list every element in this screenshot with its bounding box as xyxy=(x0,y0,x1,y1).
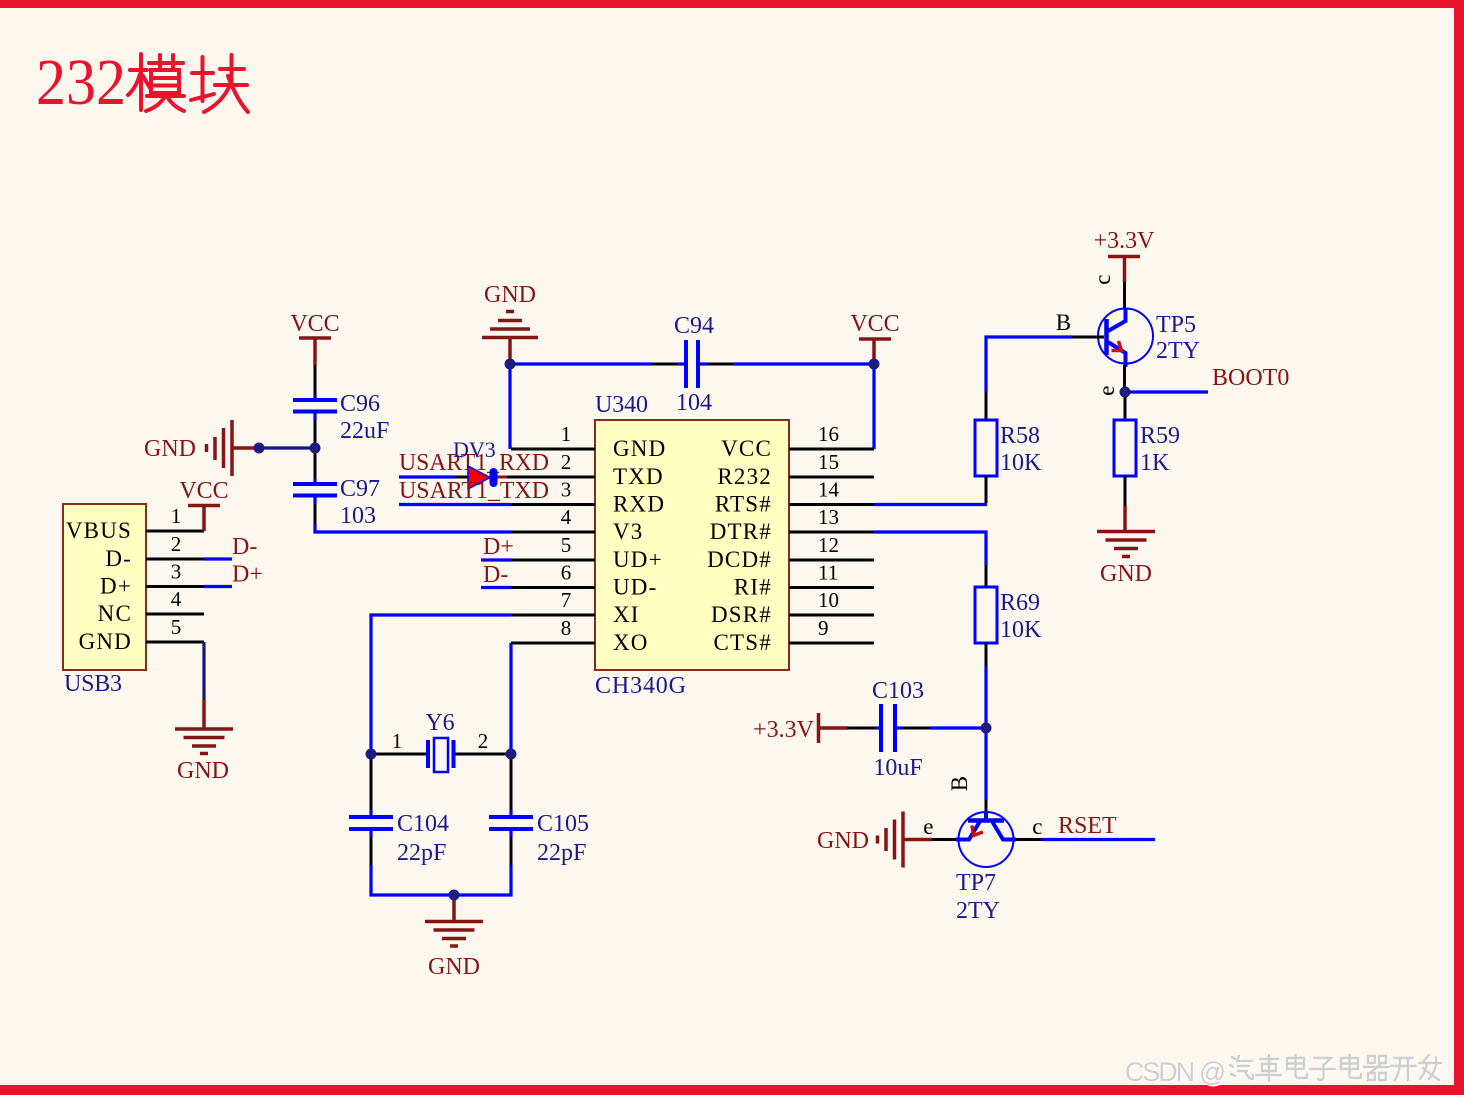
svg-text:+3.3V: +3.3V xyxy=(753,717,815,743)
U340 pin 16 VCC xyxy=(721,422,874,461)
svg-text:16: 16 xyxy=(818,422,839,446)
svg-text:GND: GND xyxy=(817,828,869,854)
power +3.3V above TP5 xyxy=(1094,228,1156,282)
connector USB3 body xyxy=(63,504,146,697)
node crystal ground junction xyxy=(449,890,460,901)
svg-text:Y6: Y6 xyxy=(425,710,454,736)
svg-text:C104: C104 xyxy=(397,811,449,837)
svg-text:1K: 1K xyxy=(1140,450,1170,476)
wire VCC to C96 xyxy=(314,365,317,395)
svg-text:VBUS: VBUS xyxy=(66,518,132,543)
svg-text:232: 232 xyxy=(36,46,126,119)
capacitor C103 xyxy=(872,678,924,781)
svg-text:D+: D+ xyxy=(483,534,514,560)
svg-text:R58: R58 xyxy=(1000,423,1040,449)
U340 pin 11 RI# xyxy=(734,561,874,600)
svg-text:C103: C103 xyxy=(872,678,924,704)
U340 pin 5 UD+ xyxy=(511,533,663,572)
svg-text:BOOT0: BOOT0 xyxy=(1212,365,1289,391)
resistor R59 xyxy=(1114,420,1180,476)
svg-text:13: 13 xyxy=(818,505,839,529)
svg-text:DV3: DV3 xyxy=(453,437,496,462)
svg-text:15: 15 xyxy=(818,450,839,474)
svg-text:GND: GND xyxy=(144,436,196,462)
svg-text:3: 3 xyxy=(561,478,572,502)
diode DV3 LED xyxy=(453,437,507,489)
svg-text:2TY: 2TY xyxy=(956,898,1000,924)
page border top bar xyxy=(0,0,1464,8)
svg-text:103: 103 xyxy=(340,503,376,529)
wire VCC junction down to chip pin16 xyxy=(872,364,875,449)
svg-text:C96: C96 xyxy=(340,391,380,417)
USB3 pin 3 xyxy=(146,560,204,587)
svg-text:12: 12 xyxy=(818,533,839,557)
svg-text:10K: 10K xyxy=(1000,617,1042,643)
svg-text:e: e xyxy=(923,814,934,839)
svg-text:14: 14 xyxy=(818,478,840,502)
wire bottom rail joining C104 C105 xyxy=(371,865,511,895)
svg-text:TP7: TP7 xyxy=(956,870,996,896)
wire D- stub at USB pin 2 xyxy=(204,557,232,560)
wire TP5 base to R58 xyxy=(985,392,988,420)
wire +3.3V to C103 xyxy=(847,727,875,730)
svg-text:VCC: VCC xyxy=(721,436,772,461)
U340 pin 9 CTS# xyxy=(714,616,874,655)
ground GND above chip xyxy=(482,282,538,364)
svg-text:VCC: VCC xyxy=(179,478,228,504)
svg-text:CH340G: CH340G xyxy=(595,673,686,699)
wire R59 bottom lead xyxy=(1124,476,1127,506)
page border right bar xyxy=(1454,0,1464,1095)
watermark CSDN xyxy=(1125,1057,1228,1089)
capacitor C94 xyxy=(674,313,714,416)
svg-text:VCC: VCC xyxy=(850,311,899,337)
wire chip pin8 XO to crystal right rail xyxy=(509,643,512,754)
node C96/C97 junction xyxy=(310,443,321,454)
svg-text:CSDN @: CSDN @ xyxy=(1125,1057,1226,1087)
svg-text:D+: D+ xyxy=(232,562,263,588)
ground GND below crystal xyxy=(425,895,483,980)
U340 pin 4 V3 xyxy=(511,505,644,544)
svg-text:+3.3V: +3.3V xyxy=(1094,228,1156,254)
power VCC right xyxy=(850,311,899,361)
svg-text:3: 3 xyxy=(171,560,182,584)
svg-text:GND: GND xyxy=(484,282,536,308)
page border bottom bar xyxy=(0,1085,1464,1095)
svg-text:2: 2 xyxy=(171,532,182,556)
wire right junction down to C105 xyxy=(510,754,513,810)
svg-text:RTS#: RTS# xyxy=(715,492,772,517)
U340 pin 10 DSR# xyxy=(711,588,874,627)
node crystal left junction xyxy=(366,749,377,760)
svg-text:NC: NC xyxy=(98,601,132,626)
svg-text:1: 1 xyxy=(171,504,182,528)
svg-text:R232: R232 xyxy=(717,464,772,489)
node crystal right junction xyxy=(506,749,517,760)
wire DTR# elbow to R69 xyxy=(985,565,988,587)
wire USB pin5 to ground xyxy=(202,642,205,700)
svg-text:D+: D+ xyxy=(100,574,132,599)
ground GND left of TP7 xyxy=(817,812,932,868)
wire C97 lead down xyxy=(314,504,317,526)
wire LED to chip pin2 xyxy=(507,476,511,479)
svg-text:5: 5 xyxy=(561,533,572,557)
svg-text:R69: R69 xyxy=(1000,590,1040,616)
resistor R58 xyxy=(975,420,1042,476)
svg-text:1: 1 xyxy=(561,422,572,446)
wire TP7 collector xyxy=(1016,838,1041,841)
svg-text:7: 7 xyxy=(561,588,572,612)
svg-text:D-: D- xyxy=(232,534,257,560)
wire D+ stub at USB pin 3 xyxy=(204,585,232,588)
svg-text:4: 4 xyxy=(171,587,182,611)
svg-text:D-: D- xyxy=(483,562,508,588)
power +3.3V left of C103 xyxy=(753,713,847,743)
U340 pin 3 RXD xyxy=(511,478,665,517)
svg-text:TXD: TXD xyxy=(613,464,664,489)
svg-text:10: 10 xyxy=(818,588,839,612)
svg-text:22uF: 22uF xyxy=(340,418,389,444)
svg-text:D-: D- xyxy=(105,546,132,571)
IC U340 CH340G body xyxy=(595,392,789,699)
capacitor C96 xyxy=(293,391,389,444)
U340 pin 8 XO xyxy=(511,616,649,655)
svg-text:9: 9 xyxy=(818,616,829,640)
wire GND junction to C96/C97 junction xyxy=(259,446,315,449)
U340 pin 2 TXD xyxy=(511,450,664,489)
svg-text:VCC: VCC xyxy=(290,311,339,337)
USB3 pin 1 xyxy=(146,504,204,531)
wire R58 bottom lead xyxy=(985,476,988,503)
svg-text:RXD: RXD xyxy=(613,492,665,517)
svg-text:c: c xyxy=(1090,273,1115,284)
svg-text:RI#: RI# xyxy=(734,575,772,600)
transistor TP7 xyxy=(956,811,1016,924)
svg-text:XO: XO xyxy=(613,630,649,655)
svg-text:GND: GND xyxy=(1100,561,1152,587)
svg-text:11: 11 xyxy=(818,561,838,585)
ground GND below R59 xyxy=(1097,506,1155,587)
wire RTS# to R58 xyxy=(874,503,987,506)
svg-text:8: 8 xyxy=(561,616,572,640)
svg-text:10uF: 10uF xyxy=(873,755,922,781)
wire left junction down to C104 xyxy=(370,754,373,810)
wire GND junction down to chip pin1 xyxy=(508,364,511,449)
svg-text:RSET: RSET xyxy=(1058,813,1117,839)
svg-text:B: B xyxy=(1056,310,1073,335)
wire junction down to TP7 base xyxy=(984,728,987,800)
wire C97 to chip pin4 V3 xyxy=(315,524,511,532)
wire TP5 base xyxy=(1072,336,1104,339)
U340 pin 15 R232 xyxy=(717,450,874,489)
U340 pin 6 UD- xyxy=(511,561,657,600)
power VCC at USB pin 1 xyxy=(188,506,220,532)
svg-text:104: 104 xyxy=(676,390,712,416)
capacitor C105 xyxy=(489,811,589,866)
svg-text:UD-: UD- xyxy=(613,575,657,600)
wire R69 bottom lead xyxy=(985,643,988,666)
wire RSET xyxy=(1041,838,1155,841)
U340 pin 1 GND xyxy=(511,422,666,461)
svg-text:C97: C97 xyxy=(340,476,380,502)
wire C96 to junction xyxy=(314,420,317,448)
U340 pin 7 XI xyxy=(511,588,640,627)
svg-text:4: 4 xyxy=(561,505,572,529)
power VCC above C96 xyxy=(290,311,339,365)
wire C105 lead down xyxy=(509,830,512,837)
node C103/R69/TP7 base junction xyxy=(981,723,992,734)
svg-text:2: 2 xyxy=(561,450,572,474)
USB3 pin 5 xyxy=(146,615,204,642)
wire chip pin7 XI to crystal left rail xyxy=(371,615,511,754)
svg-text:B: B xyxy=(947,775,972,792)
wire D+ stub to chip pin5 xyxy=(481,558,511,561)
svg-text:USART1_TXD: USART1_TXD xyxy=(399,478,549,504)
svg-text:DTR#: DTR# xyxy=(710,519,772,544)
svg-text:1: 1 xyxy=(392,729,403,753)
transistor TP5 xyxy=(1098,308,1200,367)
wire D- stub to chip pin6 xyxy=(481,586,511,589)
wire junction to C97 xyxy=(314,448,317,479)
node GND junction above chip xyxy=(505,359,516,370)
svg-text:DCD#: DCD# xyxy=(707,547,772,572)
wire USART1_RXD to LED xyxy=(399,475,455,478)
svg-text:CTS#: CTS# xyxy=(714,630,772,655)
USB3 pin 4 xyxy=(146,587,204,614)
svg-text:C94: C94 xyxy=(674,313,714,339)
wire BOOT0 xyxy=(1130,390,1208,393)
wire C103 to junction xyxy=(895,726,902,729)
wire junction to R59 xyxy=(1124,392,1127,420)
svg-text:GND: GND xyxy=(613,436,666,461)
svg-text:R59: R59 xyxy=(1140,423,1180,449)
wire USART1_TXD to chip pin3 xyxy=(399,503,511,506)
svg-text:5: 5 xyxy=(171,615,182,639)
svg-text:UD+: UD+ xyxy=(613,547,663,572)
ground GND left of C96 xyxy=(144,420,256,476)
svg-text:22pF: 22pF xyxy=(397,840,446,866)
wire TP5 emitter down xyxy=(1123,365,1126,388)
svg-text:USB3: USB3 xyxy=(64,671,122,697)
wire DTR# to R69 xyxy=(874,532,986,565)
svg-text:U340: U340 xyxy=(595,392,648,418)
wire C94 right to VCC junction xyxy=(698,362,707,365)
crystal Y6 xyxy=(371,710,511,772)
title 232模块 xyxy=(36,46,248,119)
ground GND at USB pin 5 xyxy=(175,700,233,754)
wire GND junction to C94 left xyxy=(510,362,652,365)
svg-text:c: c xyxy=(1032,814,1043,839)
svg-text:22pF: 22pF xyxy=(537,840,586,866)
svg-text:C105: C105 xyxy=(537,811,589,837)
svg-text:TP5: TP5 xyxy=(1156,312,1196,338)
node GND-C96 junction xyxy=(254,443,265,454)
USB3 pin 2 xyxy=(146,532,204,559)
svg-text:GND: GND xyxy=(79,629,132,654)
U340 pin 13 DTR# xyxy=(710,505,874,544)
svg-text:e: e xyxy=(1094,384,1119,395)
capacitor C104 xyxy=(349,811,449,866)
svg-text:2: 2 xyxy=(478,729,489,753)
svg-text:GND: GND xyxy=(428,954,480,980)
svg-text:6: 6 xyxy=(561,561,572,585)
watermark chinese glyphs xyxy=(1230,1055,1443,1083)
resistor R69 xyxy=(975,587,1042,643)
svg-text:XI: XI xyxy=(613,602,640,627)
U340 pin 12 DCD# xyxy=(707,533,874,572)
svg-text:DSR#: DSR# xyxy=(711,602,772,627)
wire +3.3V to TP5 collector xyxy=(1123,282,1126,309)
U340 pin 14 RTS# xyxy=(715,478,874,517)
wire C104 lead down xyxy=(369,830,372,837)
svg-text:10K: 10K xyxy=(1000,450,1042,476)
svg-text:2TY: 2TY xyxy=(1156,338,1200,364)
capacitor C97 xyxy=(293,476,380,529)
svg-text:V3: V3 xyxy=(613,519,644,544)
wire TP7 emitter xyxy=(932,838,956,841)
node TP5 emitter junction xyxy=(1120,387,1131,398)
node VCC junction xyxy=(869,359,880,370)
svg-text:GND: GND xyxy=(177,758,229,784)
